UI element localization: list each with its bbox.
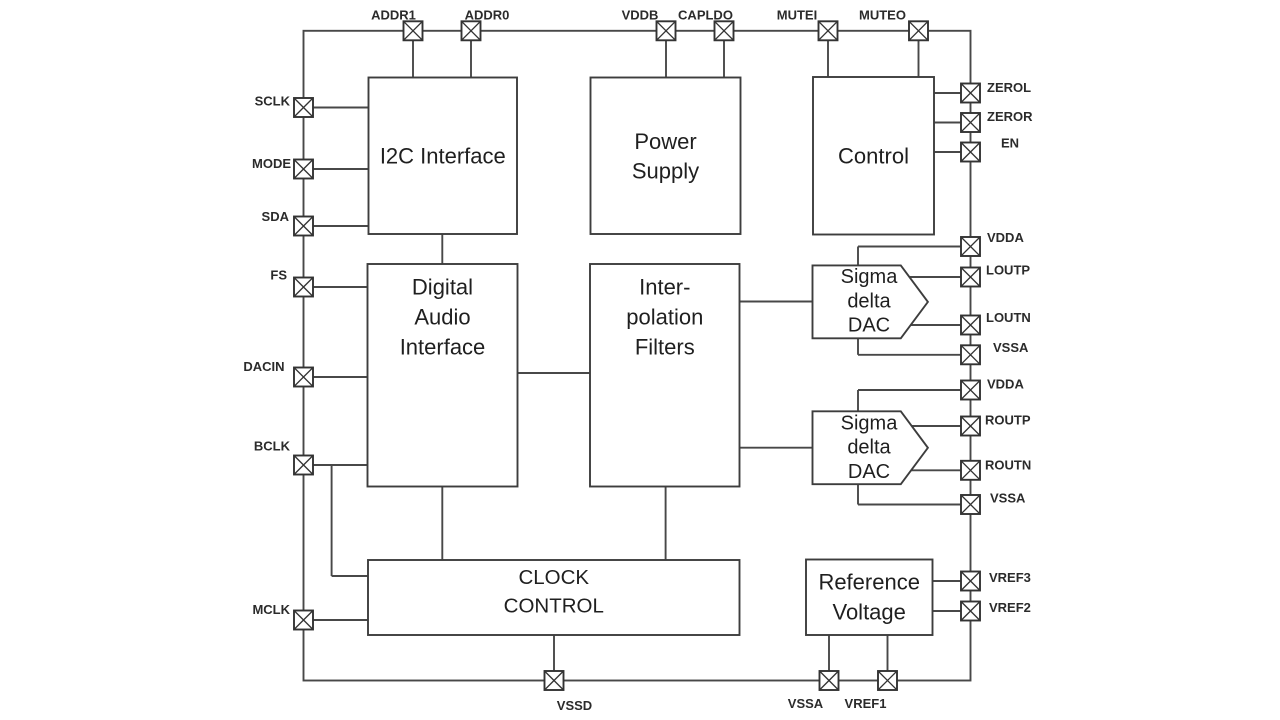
block CLOCK CONTROL [368, 560, 740, 635]
wire Interp to Clock Control [665, 487, 667, 561]
pin MUTEI [819, 21, 838, 40]
pin VDDA (R) [961, 381, 980, 400]
wire Interp to DAC1 [740, 301, 814, 303]
svg-text:MUTEO: MUTEO [859, 8, 906, 23]
svg-text:delta: delta [847, 437, 891, 459]
svg-text:Filters: Filters [635, 335, 695, 360]
pin BCLK [294, 456, 313, 475]
svg-text:Sigma: Sigma [841, 266, 899, 288]
wire ADDR1 stub [412, 40, 414, 77]
svg-text:VREF2: VREF2 [989, 600, 1031, 615]
svg-text:CLOCK: CLOCK [518, 566, 589, 589]
wire DAI to Interp [518, 372, 591, 374]
wire DAC2 VDDA horizontal [858, 389, 961, 391]
svg-text:ZEROL: ZEROL [987, 80, 1031, 95]
svg-text:ZEROR: ZEROR [987, 109, 1033, 124]
pin FS [294, 278, 313, 297]
svg-text:VDDA: VDDA [987, 377, 1024, 392]
svg-text:Inter-: Inter- [639, 275, 690, 300]
wire RV to VSSA bottom [828, 635, 830, 671]
wire I2C to DAI [441, 234, 443, 264]
svg-text:ROUTN: ROUTN [985, 458, 1031, 473]
Sigma delta DAC 2 (right channel) [813, 411, 928, 484]
pin VSSD [545, 671, 564, 690]
wire DAC2 ROUTP [910, 425, 961, 427]
pin VDDB [657, 21, 676, 40]
pin VSSA (bottom) [820, 671, 839, 690]
block Power Supply [591, 78, 741, 235]
pin MCLK [294, 611, 313, 630]
wire DAC1 VDDA vertical [857, 247, 859, 266]
pin EN [961, 143, 980, 162]
svg-text:Sigma: Sigma [841, 412, 899, 434]
svg-text:VSSA: VSSA [990, 491, 1026, 506]
svg-text:Control: Control [838, 144, 909, 169]
svg-text:LOUTP: LOUTP [986, 263, 1030, 278]
svg-text:Supply: Supply [632, 159, 699, 184]
wire Control to ZEROR [934, 122, 961, 124]
wire DAC1 LOUTP [909, 276, 962, 278]
wire BCLK branch horizontal [332, 575, 368, 577]
wire Interp to DAC2 [740, 447, 814, 449]
wire MUTEO stub [918, 40, 920, 77]
svg-text:DAC: DAC [848, 314, 890, 336]
chip boundary [304, 31, 971, 681]
svg-text:ADDR1: ADDR1 [371, 8, 416, 23]
block Interpolation Filters [590, 264, 740, 487]
pin ADDR1 [404, 21, 423, 40]
pin VSSA (L) [961, 345, 980, 364]
wire RV to VREF3 [933, 580, 962, 582]
svg-text:FS: FS [270, 268, 287, 283]
svg-text:VDDA: VDDA [987, 230, 1024, 245]
wire MCLK [313, 619, 368, 621]
svg-text:VSSA: VSSA [993, 340, 1029, 355]
svg-text:SDA: SDA [262, 209, 290, 224]
wire MUTEI stub [827, 40, 829, 77]
wire DAI to Clock Control [441, 487, 443, 561]
svg-text:Audio: Audio [414, 305, 470, 330]
wire SDA [313, 225, 369, 227]
svg-text:CAPLDO: CAPLDO [678, 8, 733, 23]
svg-text:VREF3: VREF3 [989, 570, 1031, 585]
wire DAC2 ROUTN [909, 469, 961, 471]
pin VREF1 [878, 671, 897, 690]
pin ROUTN [961, 461, 980, 480]
wire DAC1 VSSA vertical [857, 338, 859, 355]
wire DAC2 VDDA vertical [857, 390, 859, 411]
block Control [813, 77, 934, 235]
pin SCLK [294, 98, 313, 117]
svg-text:EN: EN [1001, 136, 1019, 151]
svg-text:BCLK: BCLK [254, 439, 291, 454]
wire DAC2 VSSA horizontal [858, 504, 961, 506]
pin MUTEO [909, 21, 928, 40]
svg-text:ROUTP: ROUTP [985, 413, 1031, 428]
wire DACIN [313, 376, 368, 378]
svg-text:MCLK: MCLK [252, 602, 290, 617]
svg-text:LOUTN: LOUTN [986, 310, 1031, 325]
pin ADDR0 [462, 21, 481, 40]
pin CAPLDO [715, 21, 734, 40]
pin MODE [294, 160, 313, 179]
pin SDA [294, 217, 313, 236]
Sigma delta DAC 1 (left channel) [813, 265, 928, 338]
wire BCLK [313, 464, 368, 466]
pin ZEROL [961, 84, 980, 103]
svg-text:VDDB: VDDB [622, 8, 659, 23]
pin ZEROR [961, 113, 980, 132]
svg-text:Interface: Interface [400, 335, 486, 360]
wire RV to VREF2 [933, 610, 962, 612]
svg-text:Digital: Digital [412, 275, 473, 300]
svg-text:ADDR0: ADDR0 [465, 8, 510, 23]
svg-text:MODE: MODE [252, 156, 291, 171]
wire DAC1 VDDA horizontal [858, 246, 961, 248]
block Reference Voltage [806, 560, 933, 636]
svg-text:VSSD: VSSD [557, 698, 592, 713]
pin LOUTN [961, 316, 980, 335]
wire ADDR0 stub [470, 40, 472, 77]
svg-text:Power: Power [634, 129, 696, 154]
pin VREF3 [961, 572, 980, 591]
wire BCLK branch vertical [331, 465, 333, 576]
svg-text:Reference: Reference [818, 570, 920, 595]
block I2C Interface [369, 78, 518, 235]
pin DACIN [294, 368, 313, 387]
wire Clock Control to VSSD [553, 635, 555, 671]
wire Control to EN [934, 151, 961, 153]
svg-text:Voltage: Voltage [832, 600, 905, 625]
svg-text:CONTROL: CONTROL [504, 595, 604, 618]
svg-text:VREF1: VREF1 [845, 696, 887, 711]
svg-text:polation: polation [626, 305, 703, 330]
wire DAC1 LOUTN [909, 324, 962, 326]
svg-text:MUTEI: MUTEI [777, 8, 817, 23]
wire RV to VREF1 bottom [887, 635, 889, 671]
wire CAPLDO stub [723, 40, 725, 77]
pin ROUTP [961, 417, 980, 436]
pin VSSA (R) [961, 495, 980, 514]
block Digital Audio Interface [368, 264, 518, 487]
pin VREF2 [961, 602, 980, 621]
svg-text:DACIN: DACIN [243, 359, 284, 374]
wire FS [313, 286, 368, 288]
svg-text:SCLK: SCLK [255, 94, 291, 109]
wire MODE [313, 168, 369, 170]
pin LOUTP [961, 268, 980, 287]
svg-text:I2C Interface: I2C Interface [380, 144, 506, 169]
svg-text:delta: delta [847, 290, 891, 312]
wire VDDB stub [665, 40, 667, 77]
wire DAC2 VSSA vertical [857, 484, 859, 504]
svg-text:VSSA: VSSA [788, 696, 824, 711]
wire SCLK [313, 107, 369, 109]
pin VDDA (L) [961, 237, 980, 256]
wire DAC1 VSSA horizontal [858, 354, 961, 356]
svg-text:DAC: DAC [848, 461, 890, 483]
wire Control to ZEROL [934, 92, 961, 94]
